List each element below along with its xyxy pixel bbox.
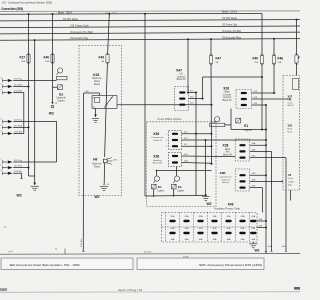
page footer text (118, 289, 142, 292)
net label Batt. (5V) (58, 11, 72, 14)
node (153, 195, 155, 197)
wire stub (176, 171, 178, 177)
connector pin (0, 124, 12, 129)
wire label vertical (80, 238, 83, 247)
wire X3B-1 (250, 174, 266, 176)
pin X49-3 (197, 220, 203, 222)
svg-text:86: 86 (93, 97, 95, 99)
ground W2 (100, 187, 109, 191)
svg-text:Blk 41: Blk 41 (288, 105, 295, 107)
net label O2 Acoustic Plug right (222, 36, 242, 39)
wire pin corner (13, 92, 24, 94)
corner mark (294, 287, 300, 290)
net label O2 Acoustic Plug (70, 37, 89, 40)
wire F46 to X26 (273, 64, 275, 94)
svg-text:W2: W2 (49, 112, 54, 116)
tick (265, 251, 267, 253)
svg-text:45B: 45B (185, 228, 189, 230)
label front office option (158, 118, 183, 121)
page rule (0, 291, 300, 293)
svg-text:E1: E1 (244, 124, 248, 128)
fuse F46 (272, 54, 283, 65)
wire X47-1 (189, 92, 197, 94)
svg-text:Batt. (5V): Batt. (5V) (58, 11, 72, 14)
pin labels X49 (171, 215, 256, 241)
svg-text:SE6 Convenience Outlet, Back-U: SE6 Convenience Outlet, Back-Up Alarm - … (10, 263, 80, 267)
wire X49 out A (257, 220, 266, 222)
svg-text:X36: X36 (153, 132, 159, 136)
svg-text:Block 40s: Block 40s (153, 163, 163, 165)
svg-text:45A: 45A (171, 215, 175, 218)
svg-text:45A: 45A (185, 215, 189, 218)
bus wire Batt (0, 12, 262, 15)
label Cigarette (56, 97, 66, 100)
node (265, 174, 267, 176)
pin X36-1 (172, 133, 178, 135)
wire pin corner (13, 172, 21, 174)
wire X47-2 (189, 98, 203, 100)
connector pin (0, 119, 12, 124)
ground label W2 (255, 249, 260, 253)
wire X3B-3 (250, 187, 263, 189)
heater element E1 (58, 85, 63, 90)
relay K33 (92, 96, 117, 109)
svg-text:Batt. (5V): Batt. (5V) (105, 11, 117, 14)
svg-text:Outlet 41: Outlet 41 (153, 139, 163, 142)
svg-text:O2 Acoustic Plug: O2 Acoustic Plug (222, 36, 242, 39)
svg-text:2: 2 (166, 140, 167, 142)
wire pin to F27 net (13, 86, 28, 88)
enclosure back-up alarm (79, 45, 122, 195)
svg-text:F47: F47 (216, 57, 222, 61)
alarm H9 symbol (103, 158, 112, 165)
pin X49-6 (239, 220, 245, 222)
wire X28-3 (250, 157, 286, 159)
wire X36-2 (182, 139, 267, 141)
pin X36-3 (172, 145, 178, 147)
wire bus5 to X47 (187, 39, 189, 92)
tick (285, 250, 287, 252)
node (28, 126, 30, 128)
wire down to bus (271, 151, 273, 251)
svg-text:Console: Console (223, 94, 232, 96)
ground W2 (249, 244, 257, 248)
svg-text:X49: X49 (228, 203, 234, 207)
wire X36-1 (182, 133, 212, 135)
node (211, 145, 213, 147)
svg-text:46D: 46D (252, 173, 256, 175)
ground label W2 (17, 194, 22, 198)
pin X26-1 (241, 92, 247, 94)
svg-text:46A: 46A (199, 238, 203, 241)
wire down to bus (285, 158, 287, 252)
wire X28-2 (250, 150, 272, 152)
svg-text:Block 40: Block 40 (223, 100, 233, 102)
svg-text:46A: 46A (252, 142, 256, 145)
svg-text:45B: 45B (259, 225, 263, 227)
wire X26-1 (252, 92, 276, 94)
block X38 label (153, 154, 159, 158)
net label O2 Fuses Cab (71, 26, 90, 28)
svg-text:15A: 15A (254, 61, 258, 64)
wire to X49 (262, 188, 264, 213)
enclosure cab harness (283, 76, 300, 191)
svg-text:022 Org: 022 Org (14, 159, 23, 162)
wire stub (156, 171, 158, 177)
svg-text:F49: F49 (99, 56, 105, 60)
block X36 (169, 131, 182, 150)
svg-text:45A: 45A (241, 215, 245, 218)
wire down (56, 122, 58, 163)
tick (281, 180, 283, 182)
svg-text:X27: X27 (288, 95, 293, 99)
svg-text:O2 (5V) Relay: O2 (5V) Relay (63, 19, 79, 21)
lamp symbol E1 lighter A (153, 176, 159, 183)
label E1 lighter B (178, 185, 182, 189)
connector pin (0, 159, 12, 164)
node (195, 133, 197, 135)
connector X49 label (228, 203, 234, 207)
svg-text:Conv.: Conv. (288, 102, 294, 104)
net label Batt. (5V) right (222, 11, 237, 14)
wire F40 feed / E1 (52, 14, 54, 104)
pin X47-2 (179, 98, 185, 100)
svg-text:K33: K33 (93, 73, 99, 77)
net label O2 Accessory Plug (Batt) (70, 31, 93, 34)
svg-text:Right: Right (225, 148, 231, 151)
connector X49 (162, 213, 258, 243)
svg-text:87: 87 (106, 104, 108, 106)
svg-text:F46: F46 (278, 57, 284, 61)
pin X49-13 (239, 232, 245, 234)
wire F49 feed (108, 14, 110, 55)
connector pin (0, 84, 12, 89)
terminal W2 (51, 103, 54, 108)
wire bus5 to F46 (273, 39, 275, 56)
heater element (236, 118, 241, 123)
wire net down to bus (265, 105, 267, 254)
junction block X47 label (176, 68, 182, 72)
node (156, 170, 158, 172)
node (211, 163, 213, 165)
svg-text:46E: 46E (252, 179, 256, 181)
wire front office feed (144, 14, 146, 196)
pin X49-4 (211, 220, 217, 222)
header title Connection (SE6) (1, 6, 23, 11)
svg-text:10A: 10A (45, 60, 49, 63)
svg-text:022 Org: 022 Org (14, 119, 23, 122)
svg-text:15A: 15A (21, 60, 25, 63)
wire bus2 to F48 (296, 20, 298, 55)
junction block X47 (175, 87, 189, 111)
svg-text:O2 Fuses Cab: O2 Fuses Cab (71, 26, 90, 28)
svg-text:202 Blk: 202 Blk (14, 171, 23, 173)
heater E1 lighter A (152, 184, 157, 189)
svg-text:012 Red: 012 Red (14, 125, 23, 127)
node (265, 227, 267, 229)
svg-text:29.4 Brn: 29.4 Brn (80, 238, 83, 247)
ground arrow (33, 183, 36, 186)
pin X49-2 (183, 220, 189, 222)
pin X38-1 (172, 155, 178, 157)
svg-text:46C: 46C (252, 156, 256, 158)
wire X38 to feed (176, 167, 178, 171)
lamp symbol E1 right (214, 117, 220, 124)
svg-text:30: 30 (110, 97, 112, 99)
wire x145 join (145, 195, 147, 197)
svg-text:W2: W2 (255, 249, 260, 253)
wire acoustic to ground (34, 40, 36, 176)
svg-text:45B: 45B (251, 228, 255, 230)
svg-text:45A: 45A (227, 215, 231, 218)
node (28, 167, 30, 169)
wire H9 to ground (103, 163, 105, 184)
wire down (23, 93, 25, 134)
svg-text:45B: 45B (171, 228, 175, 230)
wire F27 feed (28, 14, 30, 176)
wire X28-1 (250, 144, 266, 146)
block X28a (235, 139, 250, 161)
wire coil to ground (95, 108, 97, 116)
label X2 (288, 173, 292, 177)
pin X49-12 (225, 232, 231, 234)
svg-text:H9: H9 (93, 157, 97, 161)
node bus1/F40 (52, 13, 54, 15)
wire pin right (13, 121, 56, 123)
node bus1/x145 (144, 13, 146, 15)
wire X38-2 (182, 162, 212, 165)
ground label W2 (95, 195, 100, 199)
svg-text:40A: 40A (268, 245, 272, 248)
svg-text:Block 40: Block 40 (177, 79, 187, 81)
block X28 label (223, 144, 229, 148)
ground label W2 (207, 202, 212, 206)
node bus1/F49 (108, 13, 110, 15)
pin X49-11 (211, 232, 217, 234)
svg-text:S06: Accessory Dimensions P/N: S06: Accessory Dimensions P/N (14W) (199, 263, 262, 267)
label X27 (288, 95, 293, 99)
wire lighter feed bus (157, 170, 212, 172)
svg-text:45B: 45B (213, 228, 217, 230)
pin X28-2 (239, 150, 245, 152)
svg-text:202 Blk: 202 Blk (14, 132, 23, 134)
svg-text:46A: 46A (241, 238, 245, 241)
node bus5 (34, 39, 36, 41)
svg-text:202 Blk: 202 Blk (14, 91, 23, 93)
wire lighter feed (230, 109, 232, 130)
svg-text:gn 29.4: gn 29.4 (144, 251, 152, 253)
svg-text:46F: 46F (252, 186, 256, 188)
block X3B (235, 169, 250, 191)
block X26 label (223, 86, 229, 90)
svg-text:W2: W2 (17, 194, 22, 198)
label (55, 249, 58, 251)
pin X3B-1 (239, 174, 245, 176)
wire stub (225, 124, 231, 126)
wire X3B-2 (250, 180, 283, 182)
net label O2 (5V) Relay right (222, 18, 238, 20)
wire lighter down (173, 189, 175, 196)
svg-text:46A: 46A (227, 238, 231, 241)
svg-text:W2: W2 (95, 195, 100, 199)
label (183, 256, 189, 258)
svg-text:46A: 46A (185, 238, 189, 241)
ground W2 (30, 186, 39, 190)
svg-text:Conv.: Conv. (288, 178, 294, 180)
lamp symbol E1 (57, 68, 63, 75)
fuse F47 (209, 54, 221, 65)
wire stub (99, 93, 101, 96)
svg-text:022 Org: 022 Org (14, 78, 23, 81)
svg-text:46C: 46C (184, 154, 188, 156)
svg-text:F40: F40 (253, 57, 259, 61)
svg-text:46A: 46A (171, 238, 175, 241)
wire down to X36/ground (195, 93, 197, 197)
wire stub below box (290, 190, 292, 201)
svg-text:Convenience: Convenience (219, 177, 233, 179)
pin X28-1 (239, 144, 245, 146)
wire down to ground (205, 140, 207, 196)
svg-text:O2 (5V) Relay: O2 (5V) Relay (222, 18, 238, 20)
svg-text:O2 Fuses Cab: O2 Fuses Cab (222, 25, 238, 27)
pin X49-10 (197, 232, 203, 234)
connector pin (0, 170, 12, 175)
net label O2 (5V) Relay (63, 19, 79, 21)
bus wire O2 Accessory Plug (Batt) (0, 32, 300, 34)
wire join to ground (29, 175, 35, 177)
node (205, 194, 207, 196)
ground bus (0, 253, 300, 256)
node (202, 98, 204, 100)
svg-text:Roof: Roof (288, 129, 293, 131)
svg-text:46A: 46A (251, 238, 255, 241)
ground W2 (202, 196, 210, 200)
svg-text:Front Office Option: Front Office Option (158, 118, 183, 121)
pin X49-14 (250, 232, 256, 234)
pin X49-7 (250, 220, 256, 222)
tick (64, 249, 66, 254)
net label O2 Accessory Plug (Batt) right (222, 30, 241, 33)
svg-text:Lighter: Lighter (157, 189, 164, 192)
node (176, 170, 178, 172)
svg-text:10A: 10A (278, 61, 282, 64)
wire pin join (13, 161, 56, 163)
svg-text:Alarm: Alarm (94, 165, 100, 168)
pin X49-9 (183, 232, 189, 234)
page number (0, 288, 7, 291)
node (261, 76, 263, 78)
connector pin (0, 90, 12, 95)
connector box (293, 79, 299, 90)
ground arrow (94, 115, 97, 118)
enclosure front office option (147, 122, 217, 207)
footer bar 2 (137, 258, 264, 270)
wire F47 down (210, 64, 213, 164)
svg-text:45A: 45A (213, 215, 217, 218)
header note (2, 0, 52, 4)
node (273, 92, 275, 94)
bus wire O2 (5V) Relay (0, 20, 300, 21)
svg-text:Outlet: Outlet (288, 180, 294, 183)
footer bar 1 (1, 258, 133, 270)
svg-text:O2 Acoustic Plug: O2 Acoustic Plug (70, 37, 89, 40)
svg-text:O2 Accessory Plug (Batt): O2 Accessory Plug (Batt) (70, 31, 93, 34)
svg-text:3: 3 (166, 146, 167, 148)
pin X47-1 (179, 91, 185, 93)
wire pin to F27 net (13, 126, 28, 128)
node (211, 133, 213, 135)
svg-text:E1: E1 (158, 185, 162, 189)
wire lighter to net (231, 129, 266, 131)
wire to bottom bus (82, 93, 84, 251)
fuse F48 (295, 53, 304, 64)
wire lighter down (153, 189, 155, 196)
block X26 (236, 90, 252, 109)
wire relay 87a to X47/F47 (117, 104, 212, 106)
wire pin join (13, 133, 24, 135)
connector pin (0, 78, 12, 83)
fuse F40 (44, 53, 55, 64)
pin X3B-2 (239, 180, 245, 182)
svg-text:Convenience: Convenience (151, 137, 165, 139)
node bus5 (187, 38, 189, 40)
wire end tick (82, 250, 84, 252)
bus wire O2 Acoustic Plug (0, 39, 300, 41)
block X3B label (220, 171, 227, 175)
svg-text:W2: W2 (207, 202, 212, 206)
node bus1/F27 (28, 13, 30, 15)
wire pin to E1 (13, 80, 56, 82)
wire F40net down (202, 77, 204, 99)
svg-text:85: 85 (93, 107, 95, 109)
bus wire O2 Fuses Cab (0, 26, 300, 28)
label (9, 251, 14, 253)
connector pin (0, 165, 12, 170)
alarm H9 label (93, 157, 97, 161)
svg-text:2 Blk: 2 Blk (113, 159, 117, 161)
pin X3B-3 (239, 187, 245, 189)
wire pin to net (13, 167, 28, 169)
ground label W2 (49, 112, 54, 116)
svg-text:012 Red: 012 Red (14, 85, 23, 87)
node (296, 19, 298, 21)
heater E1 lighter B (172, 184, 177, 189)
svg-text:45A: 45A (251, 215, 255, 218)
wire across (203, 76, 263, 78)
net label faint (105, 11, 117, 14)
fuse F40 (253, 54, 264, 65)
lamp symbol E1 lighter B (173, 176, 179, 183)
wire lighters to ground (147, 194, 206, 197)
svg-text:Apr6 | Prog | M: Apr6 | Prog | M (118, 289, 142, 292)
svg-text:46B: 46B (252, 149, 256, 151)
wire F40 down (261, 64, 263, 130)
node (187, 92, 189, 94)
svg-text:45B: 45B (227, 228, 231, 230)
label X25 (288, 124, 293, 128)
node (265, 220, 267, 222)
connector X49 grid (162, 213, 258, 243)
pin X36-2 (172, 139, 178, 141)
pin X49-8 (169, 232, 175, 234)
tick (103, 184, 105, 186)
node (28, 86, 30, 88)
pin X38-2 (172, 161, 178, 163)
svg-text:45B: 45B (241, 228, 245, 230)
wire to ground W2 (34, 176, 36, 185)
node (261, 129, 263, 131)
relay K33 label (93, 73, 99, 77)
